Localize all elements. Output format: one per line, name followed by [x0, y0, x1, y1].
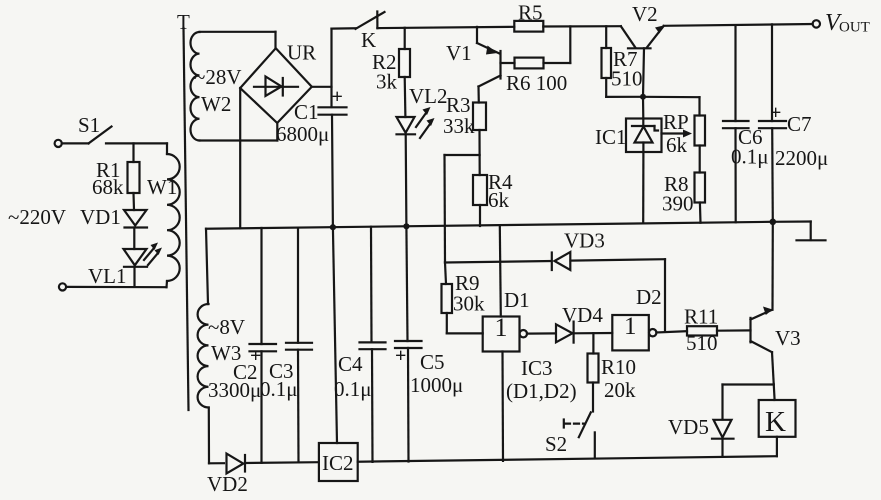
node Vout terminal	[813, 10, 870, 36]
svg-text:68k: 68k	[92, 175, 124, 199]
ground	[773, 222, 826, 241]
svg-text:W2: W2	[201, 92, 231, 116]
wire	[717, 329, 751, 332]
node dot bus C5	[403, 223, 409, 229]
svg-text:+: +	[395, 345, 406, 367]
wire VD5 branch	[723, 385, 774, 420]
svg-text:+: +	[332, 86, 343, 108]
svg-text:0.1μ: 0.1μ	[334, 377, 372, 401]
transistor V1	[446, 27, 501, 103]
svg-text:20k: 20k	[604, 378, 636, 402]
svg-text:VD2: VD2	[207, 472, 248, 496]
node junction dot V2 base	[640, 94, 646, 100]
winding W1	[147, 143, 180, 287]
svg-text:W1: W1	[147, 175, 177, 199]
svg-text:VD3: VD3	[564, 229, 605, 253]
svg-text:IC1: IC1	[595, 125, 627, 149]
node mains input terminal bottom	[59, 283, 66, 290]
svg-text:C1: C1	[294, 100, 319, 124]
svg-text:S1: S1	[78, 113, 100, 137]
wire dc plus	[312, 86, 332, 88]
svg-text:2200μ: 2200μ	[775, 146, 828, 170]
capacitor C3	[260, 228, 312, 463]
wire	[276, 123, 278, 141]
shunt regulator IC1	[595, 97, 662, 223]
wire	[200, 139, 278, 141]
winding W2	[190, 32, 241, 141]
node dot bus C7	[770, 219, 777, 226]
wire VD3 to D2 output	[571, 259, 666, 331]
svg-text:VD5: VD5	[668, 415, 709, 439]
svg-text:V3: V3	[775, 326, 801, 350]
svg-text:R5: R5	[518, 1, 543, 25]
wire	[66, 286, 166, 289]
wire	[106, 142, 167, 144]
svg-text:510: 510	[611, 67, 643, 91]
svg-text:1000μ: 1000μ	[410, 373, 463, 397]
LED VL2	[397, 84, 448, 226]
svg-text:R11: R11	[684, 305, 718, 329]
svg-text:OUT: OUT	[839, 20, 870, 36]
svg-text:D1: D1	[504, 288, 530, 312]
svg-text:510: 510	[686, 331, 718, 355]
svg-text:IC2: IC2	[322, 451, 354, 475]
capacitor C1	[276, 86, 347, 227]
transistor V3	[751, 222, 801, 400]
svg-text:VD1: VD1	[80, 205, 121, 229]
svg-text:VL1: VL1	[88, 264, 127, 288]
svg-text:IC3: IC3	[521, 356, 553, 380]
svg-text:390: 390	[662, 192, 694, 216]
wire	[330, 29, 332, 107]
wire bottom rail to IC2	[245, 461, 319, 464]
svg-text:0.1μ: 0.1μ	[731, 145, 769, 169]
svg-text:C5: C5	[420, 350, 445, 374]
resistor R2	[372, 28, 410, 117]
svg-text:(D1,D2): (D1,D2)	[506, 379, 577, 403]
capacitor C4	[334, 227, 386, 462]
svg-text:30k: 30k	[453, 292, 485, 316]
diode VD4	[556, 303, 603, 343]
svg-text:C4: C4	[338, 352, 363, 376]
svg-text:D2: D2	[636, 285, 662, 309]
svg-text:0.1μ: 0.1μ	[260, 377, 298, 401]
resistor R3	[443, 93, 486, 175]
gate D2	[612, 285, 661, 350]
resistor R7	[602, 26, 644, 97]
node dot bus C1	[330, 224, 336, 230]
svg-text:R6 100: R6 100	[506, 71, 567, 95]
svg-text:V2: V2	[632, 2, 658, 26]
wire	[200, 31, 276, 33]
wire	[574, 332, 613, 334]
transformer T core	[177, 10, 190, 410]
wire top rail	[543, 25, 621, 27]
relay coil K	[759, 400, 796, 456]
svg-text:6k: 6k	[488, 188, 510, 212]
potentiometer RP	[643, 97, 705, 173]
svg-text:1: 1	[624, 313, 637, 340]
wire mid bus	[206, 222, 773, 229]
resistor R5	[514, 1, 543, 32]
wire	[527, 332, 556, 334]
svg-text:VL2: VL2	[409, 84, 448, 108]
svg-text:K: K	[361, 28, 376, 52]
wire junction to sense line	[445, 154, 480, 156]
diode VD5	[668, 415, 734, 457]
resistor R1	[92, 143, 140, 210]
svg-text:C7: C7	[787, 112, 812, 136]
gate D1	[483, 225, 530, 461]
svg-text:K: K	[765, 406, 786, 438]
svg-text:VD4: VD4	[562, 303, 603, 327]
svg-text:~220V: ~220V	[8, 205, 66, 229]
wire top rail mid	[377, 27, 514, 28]
wire	[656, 331, 687, 332]
resistor R8	[662, 172, 705, 223]
svg-text:UR: UR	[287, 41, 316, 65]
svg-text:6800μ: 6800μ	[276, 122, 329, 146]
winding W3	[198, 229, 245, 464]
resistor R6	[506, 58, 567, 95]
capacitor C5	[395, 226, 463, 461]
svg-text:T: T	[177, 10, 190, 34]
switch S2	[545, 412, 595, 458]
potentiometer RP wiper arrow	[662, 130, 693, 138]
wire bottom rail left	[209, 462, 224, 464]
transistor V2	[621, 2, 664, 97]
wire sense line vertical	[445, 155, 447, 284]
wire	[274, 32, 276, 49]
wire top rail right	[664, 24, 813, 26]
resistor R4	[473, 170, 513, 226]
diode VD2	[207, 454, 248, 496]
wire VD3 net	[445, 261, 552, 263]
svg-text:1: 1	[495, 313, 508, 342]
svg-text:R10: R10	[601, 355, 636, 379]
diode VD3	[552, 229, 605, 271]
capacitor C6	[723, 25, 769, 222]
bridge rectifier UR	[240, 41, 316, 124]
svg-text:~28V: ~28V	[194, 65, 242, 89]
svg-text:33k: 33k	[443, 114, 475, 138]
resistor R11	[684, 305, 718, 356]
label IC3	[506, 356, 577, 403]
capacitor C7	[759, 24, 828, 221]
wire dc minus	[239, 88, 241, 228]
resistor R9	[442, 271, 486, 333]
switch S1	[78, 113, 112, 143]
node mains input terminal top	[55, 140, 62, 147]
regulator IC2	[319, 227, 358, 481]
svg-text:V1: V1	[446, 41, 472, 65]
svg-text:6k: 6k	[666, 133, 688, 157]
wire R9 to D1 input	[447, 332, 483, 334]
wire R6 to rail	[501, 26, 571, 63]
wire	[62, 142, 89, 144]
relay contact K top	[356, 12, 385, 53]
svg-text:~8V: ~8V	[208, 315, 245, 339]
wire bottom rail right	[358, 456, 777, 462]
LED VL1	[88, 243, 162, 289]
svg-text:RP: RP	[663, 110, 689, 134]
resistor R10	[588, 333, 637, 411]
svg-text:3300μ: 3300μ	[208, 378, 261, 402]
svg-text:3k: 3k	[376, 70, 398, 94]
wire top rail left	[332, 27, 356, 30]
diode VD1	[80, 205, 147, 249]
svg-text:S2: S2	[545, 432, 567, 456]
capacitor C2	[208, 228, 276, 463]
